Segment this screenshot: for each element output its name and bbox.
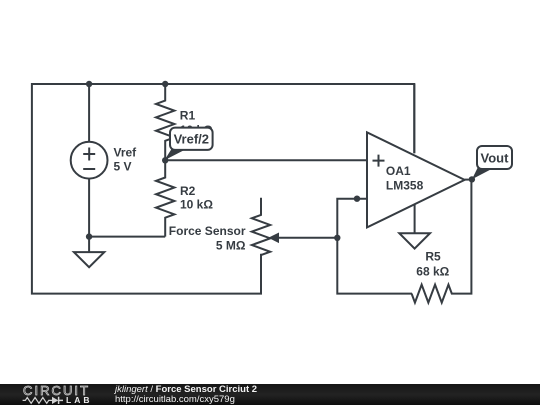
svg-text:68 kΩ: 68 kΩ [416, 265, 449, 279]
svg-text:R2: R2 [180, 184, 196, 198]
svg-text:Force Sensor: Force Sensor [169, 224, 246, 238]
svg-text:Vref: Vref [114, 145, 138, 159]
svg-text:10 kΩ: 10 kΩ [180, 198, 213, 212]
svg-text:LM358: LM358 [386, 179, 424, 193]
svg-text:OA1: OA1 [386, 164, 411, 178]
svg-text:Vref/2: Vref/2 [174, 132, 209, 147]
svg-text:R1: R1 [180, 109, 196, 123]
svg-text:5 V: 5 V [114, 159, 132, 173]
svg-text:5 MΩ: 5 MΩ [216, 239, 246, 253]
svg-text:R5: R5 [425, 250, 441, 264]
svg-text:Vout: Vout [481, 151, 510, 166]
